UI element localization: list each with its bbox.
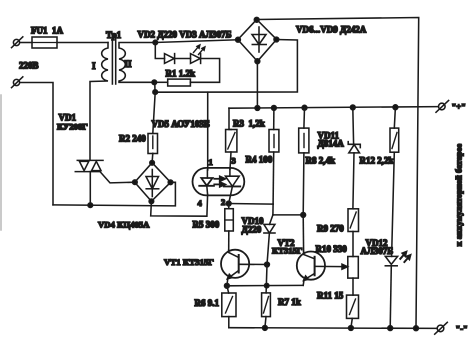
emitter rail VT1 to VT2 (227, 284, 303, 286)
resistor R6 (222, 286, 236, 328)
node bottom bus / minus rail (414, 326, 419, 331)
terminal X2 (220V input, lower) (12, 77, 23, 88)
zener VD11 (348, 107, 360, 208)
wire triac bottom to lower rail (89, 172, 91, 206)
svg-text:II: II (125, 59, 133, 69)
transformer T1 secondary winding II (119, 43, 155, 83)
node bridge top vertex (254, 17, 259, 22)
wire pin2 to R4 column (229, 203, 273, 206)
optocoupler U1 body (193, 168, 245, 196)
wire secondary top to bridge left vertex (155, 40, 238, 43)
node triac on lower rail (88, 203, 93, 208)
LED VD12 emission arrows (400, 252, 410, 262)
wire node down to AC rail (154, 82, 156, 92)
node bridge left vertex (236, 37, 241, 42)
node VT1 collector / VD10 column (265, 262, 270, 267)
node plus bus / R12 (393, 105, 398, 110)
svg-text:Д814А: Д814А (318, 139, 345, 149)
diode VD10 (264, 215, 275, 265)
svg-text:I: I (92, 61, 96, 71)
wire lower rail (terminal X2 side) (53, 182, 175, 206)
svg-text:R4 100: R4 100 (246, 155, 273, 165)
svg-text:4: 4 (198, 198, 203, 208)
scan edge artifact (0, 95, 2, 230)
wire bridge top to right drop (minus rail) (257, 18, 419, 329)
svg-text:VD6...VD9 Д242А: VD6...VD9 Д242А (296, 25, 367, 35)
node bottom bus / R11 (349, 326, 354, 331)
node AC rail / R2 column (153, 90, 158, 95)
svg-text:1: 1 (209, 157, 213, 167)
svg-text:R2 240: R2 240 (119, 134, 146, 144)
svg-text:R11 15: R11 15 (317, 291, 344, 301)
svg-text:АЛ307Б: АЛ307Б (361, 246, 394, 256)
svg-text:VD4 КЦ405А: VD4 КЦ405А (98, 219, 150, 229)
node plus bus / bridge (255, 106, 260, 111)
svg-text:Д220: Д220 (242, 225, 262, 235)
svg-text:Тр1: Тр1 (106, 30, 122, 40)
wire VD10 column down to R7 (265, 265, 268, 293)
resistor R8 (299, 108, 309, 215)
optocoupler LED side (199, 170, 214, 195)
fuse FU1 (20, 37, 57, 48)
node VD4 right vertex (168, 180, 173, 185)
variable resistor R10 (348, 257, 359, 296)
svg-text:VD2 Д220 VD3 АЛ307Б: VD2 Д220 VD3 АЛ307Б (138, 30, 232, 40)
svg-text:R3 1,2k: R3 1,2k (233, 119, 265, 129)
svg-text:к аккумуляторной батарее: к аккумуляторной батарее (455, 144, 464, 247)
svg-text:"+": "+" (452, 102, 466, 112)
bridge VD4 (135, 163, 171, 202)
svg-text:R8 2,4k: R8 2,4k (306, 156, 336, 166)
bottom minus bus (229, 327, 437, 330)
resistor R7 (262, 293, 271, 328)
terminal plus (436, 101, 449, 113)
optocoupler coupling arrows (214, 176, 225, 186)
diode VD2 (165, 54, 191, 64)
svg-text:R7 1k: R7 1k (278, 297, 301, 307)
wire VD4 bottom vertex to optocoupler pin 4 (151, 195, 208, 217)
svg-text:220В: 220В (19, 61, 39, 71)
node VD4 top vertex (150, 161, 155, 166)
svg-text:VT1 КТ315Г: VT1 КТ315Г (164, 257, 214, 267)
svg-text:R12 2,2k: R12 2,2k (360, 156, 394, 166)
resistor R1 (168, 79, 191, 86)
svg-text:R1 1.2k: R1 1.2k (166, 69, 196, 79)
wire R4 column to VD10 (272, 204, 274, 215)
wire cross link to R8 column (273, 214, 303, 216)
node emitter rail / R7 column (265, 283, 269, 287)
resistor R12 (390, 107, 399, 152)
node plus bus / R8 (302, 105, 307, 110)
node VD4 left vertex (133, 180, 138, 185)
wire optocoupler pin1 up to AC rail (207, 92, 209, 170)
transistor VT2 (297, 252, 348, 286)
node secondary bottom (152, 80, 157, 85)
transformer T1 primary winding I (90, 43, 108, 161)
optocoupler photothyristor side (224, 169, 240, 203)
resistor R3 (226, 108, 237, 169)
LED VD12 (385, 152, 397, 328)
wire bridge bottom vertex to plus bus (256, 61, 258, 108)
bridge rectifier VD6...VD9 (238, 20, 277, 62)
node optocoupler pin 2 (226, 201, 231, 206)
svg-text:VD5 АОУ103Б: VD5 АОУ103Б (152, 119, 210, 129)
node bridge bottom vertex (255, 59, 260, 64)
node R8 column junction (301, 213, 306, 218)
node VD4 bottom vertex (149, 199, 154, 204)
node plus bus / VD11 (350, 105, 355, 110)
svg-text:FU1 1A: FU1 1A (31, 26, 63, 36)
node bottom bus / VD12 (388, 326, 393, 331)
svg-text:R5 300: R5 300 (193, 220, 220, 230)
node bottom bus / R7 (263, 326, 268, 331)
svg-text:КУ208Г: КУ208Г (57, 122, 88, 132)
resistor R11 (347, 295, 359, 328)
resistor R2 (148, 92, 158, 163)
node VT1 emitter (225, 283, 230, 288)
resistor R5 (225, 204, 234, 250)
wire terminal X2 to bottom-left rail (20, 83, 53, 205)
plus bus (229, 107, 438, 109)
svg-text:КТ315Г: КТ315Г (272, 246, 302, 256)
wire down to VD2 (155, 43, 164, 59)
transformer T1 core (112, 37, 115, 85)
svg-text:3: 3 (232, 156, 236, 166)
wire R8 column to VT2 base (302, 215, 304, 252)
node bridge right vertex (274, 37, 279, 42)
resistor R4 (269, 108, 279, 204)
terminal minus (435, 322, 448, 334)
node plus bus / R4 (272, 106, 277, 111)
svg-text:"-": "-" (456, 324, 468, 334)
resistor R9 (348, 209, 359, 257)
wire VD3 to R1 right side (190, 59, 219, 83)
wire triac gate to VD4 left vertex (100, 172, 135, 183)
svg-text:R6 9.1: R6 9.1 (195, 298, 220, 308)
triac VD1 (75, 160, 103, 171)
transistor VT1 (221, 250, 267, 286)
wire R1 left to secondary bottom node (154, 81, 168, 83)
node secondary top / VD2 branch (153, 40, 158, 45)
terminal X1 (220V input, upper) (12, 37, 23, 48)
LED VD3 (191, 54, 201, 64)
svg-text:R9 270: R9 270 (317, 224, 344, 234)
wire AC rail to bridge right vertex (155, 40, 297, 93)
svg-text:2: 2 (221, 197, 225, 207)
svg-text:R10 330: R10 330 (316, 244, 348, 254)
wire fuse to transformer primary (57, 42, 108, 44)
LED VD3 emission arrows (194, 45, 205, 55)
